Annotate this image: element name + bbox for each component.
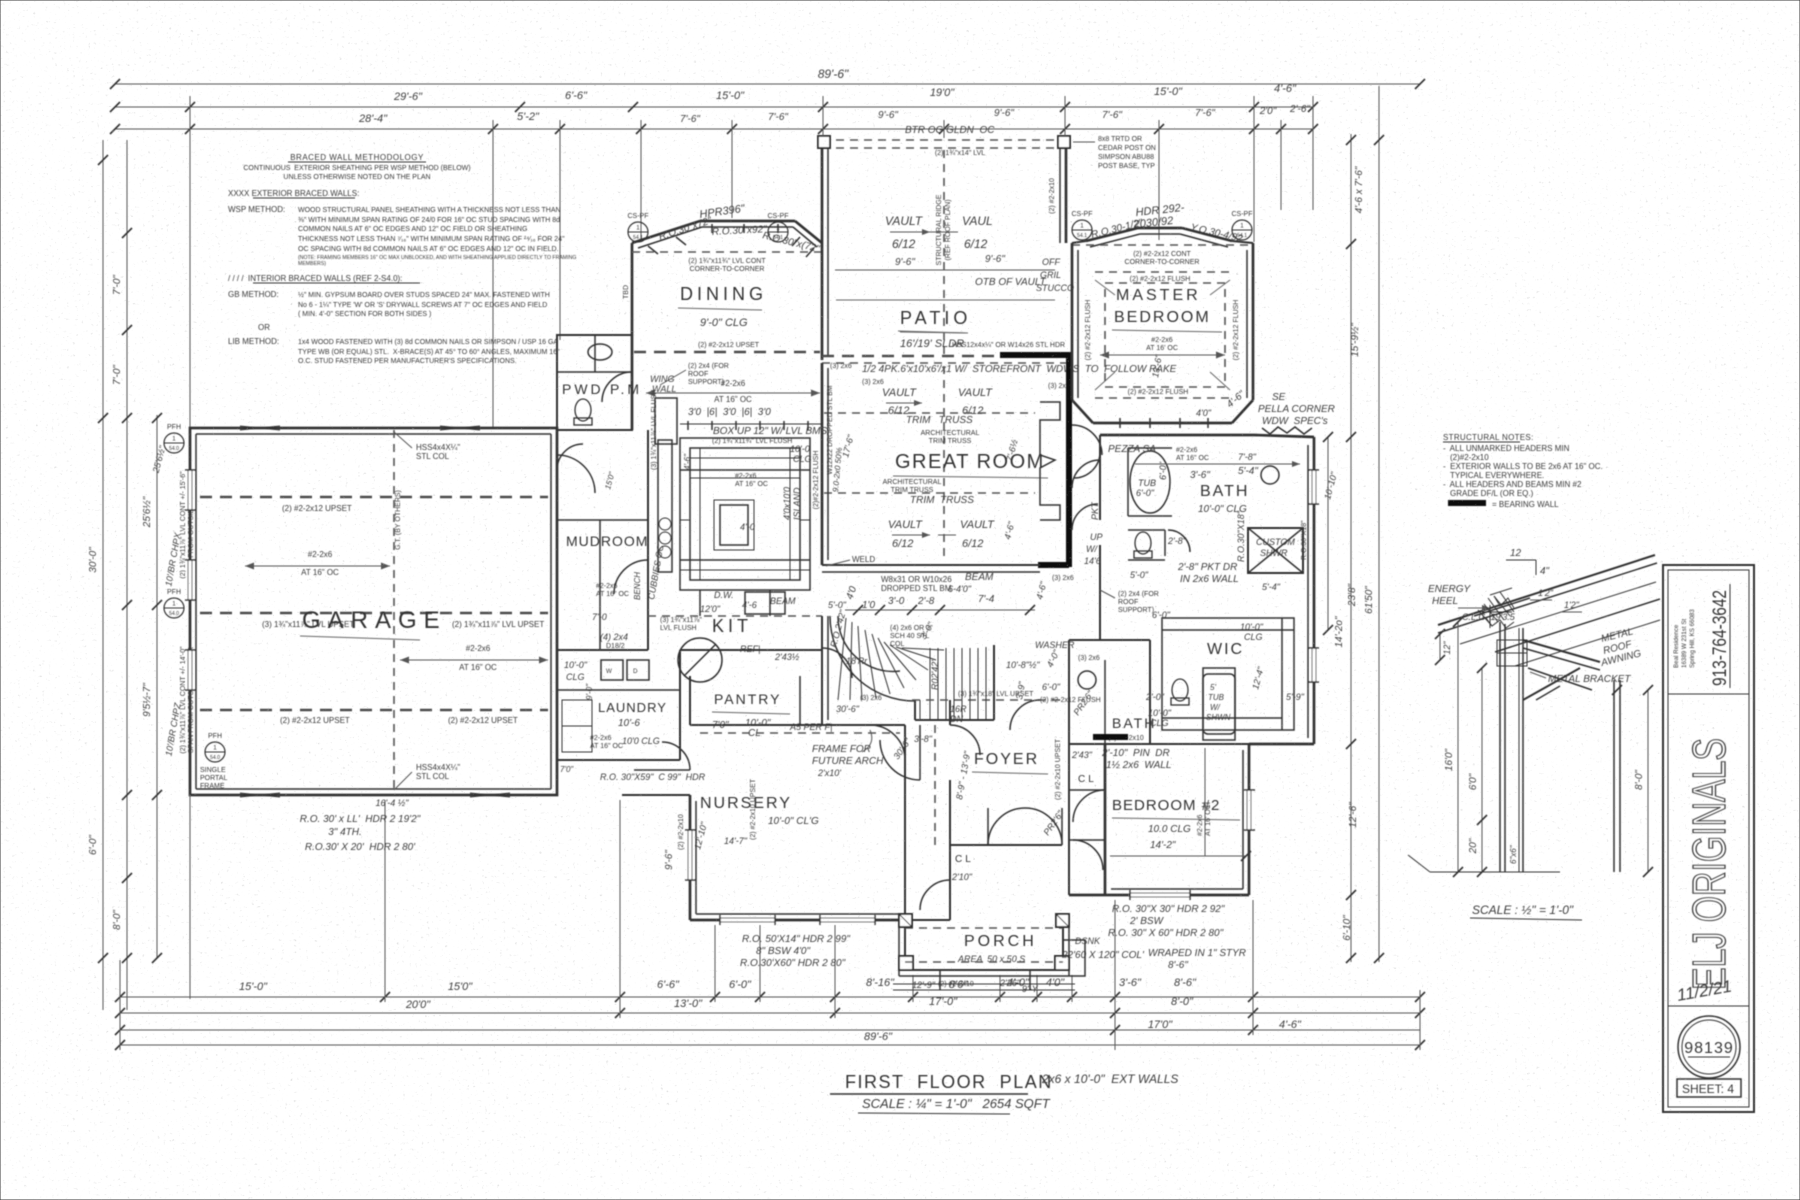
svg-text:CONTINUOUS EXTERIOR SHEATHING: CONTINUOUS EXTERIOR SHEATHING PER WSP ME… bbox=[243, 165, 470, 172]
svg-text:COL: COL bbox=[890, 641, 905, 648]
svg-text:BOX UP 12" W/ LVL BMS: BOX UP 12" W/ LVL BMS bbox=[713, 426, 827, 437]
svg-text:8'-0": 8'-0" bbox=[1634, 770, 1645, 790]
svg-text:/ / / / INTERIOR BRACED WALLS: / / / / INTERIOR BRACED WALLS (REF 2-S4.… bbox=[228, 274, 402, 283]
svg-text:(3) 1¾"x11⅞": (3) 1¾"x11⅞" bbox=[660, 617, 702, 624]
svg-text:1/2 4PK.6'x10'x6'/x1 W/ STORE: 1/2 4PK.6'x10'x6'/x1 W/ STOREFRONT WDWS … bbox=[862, 364, 1177, 375]
text: rotated dims inside great room bbox=[840, 219, 1020, 540]
detail: wall studs verticals bbox=[1497, 622, 1527, 872]
svg-text:10.0 CLG: 10.0 CLG bbox=[1148, 824, 1191, 835]
svg-text:R.O.30"X18": R.O.30"X18" bbox=[1301, 520, 1308, 560]
bottom dim row 1 (segments) bbox=[115, 977, 1425, 1002]
svg-text:½" MIN. GYPSUM BOARD OVER STUD: ½" MIN. GYPSUM BOARD OVER STUDS SPACED 2… bbox=[298, 291, 550, 299]
svg-text:6'-6": 6'-6" bbox=[657, 979, 680, 991]
svg-text:6"x6": 6"x6" bbox=[1509, 844, 1518, 864]
svg-text:BATH: BATH bbox=[1200, 483, 1249, 500]
wall: wic box bbox=[1150, 618, 1294, 744]
svg-text:5'-2": 5'-2" bbox=[517, 111, 540, 123]
wall: garage exterior bbox=[190, 428, 557, 795]
svg-text:W8x31 OR W10x26: W8x31 OR W10x26 bbox=[881, 575, 952, 584]
svg-text:PEZZA SA: PEZZA SA bbox=[1108, 444, 1156, 455]
svg-text:WSP METHOD:: WSP METHOD: bbox=[228, 205, 285, 214]
text: mudroom notes bbox=[564, 470, 642, 682]
svg-text:LIB METHOD:: LIB METHOD: bbox=[228, 337, 279, 346]
svg-text:89'-6": 89'-6" bbox=[818, 67, 849, 81]
svg-text:BENCH: BENCH bbox=[633, 572, 642, 600]
svg-text:10'-0": 10'-0" bbox=[1240, 622, 1264, 632]
svg-text:#2-2x6: #2-2x6 bbox=[1197, 814, 1204, 836]
svg-text:(2) #2-2x10: (2) #2-2x10 bbox=[678, 814, 685, 850]
svg-text:7'-0": 7'-0" bbox=[112, 365, 123, 385]
svg-text:1'2": 1'2" bbox=[1538, 588, 1554, 598]
detail: eave hatch cluster bbox=[1474, 592, 1530, 628]
svg-text:#2-2x6: #2-2x6 bbox=[1176, 447, 1198, 454]
wall: hall between GR and bath bbox=[1069, 435, 1150, 640]
svg-text:UNLESS OTHERWISE NOTED ON THE: UNLESS OTHERWISE NOTED ON THE PLAN bbox=[283, 174, 430, 181]
text: dropped beam below great room bbox=[881, 572, 994, 594]
titleblock: divider top bbox=[1668, 693, 1749, 695]
svg-text:5': 5' bbox=[1210, 683, 1216, 692]
text: foyer right notes bbox=[1041, 688, 1095, 837]
dim arrow: bedroom2 bbox=[1110, 748, 1251, 861]
wall: great room bottom bbox=[822, 565, 1040, 572]
dim arrow: MB 2x6 bbox=[1100, 337, 1225, 378]
svg-text:D.W.: D.W. bbox=[714, 590, 734, 600]
svg-text:GRADE DF/L (OR EQ.): GRADE DF/L (OR EQ.) bbox=[1450, 489, 1534, 498]
svg-text:6'0": 6'0" bbox=[1468, 773, 1479, 790]
svg-text:TRIM TRUSS: TRIM TRUSS bbox=[929, 438, 972, 445]
svg-text:12'-9": 12'-9" bbox=[912, 980, 936, 990]
svg-text:ARCHITECTURAL: ARCHITECTURAL bbox=[921, 430, 980, 437]
svg-text:HEEL: HEEL bbox=[1432, 596, 1458, 607]
wall: laundry bbox=[557, 650, 680, 760]
porch: inner dashes and steps bbox=[893, 940, 1085, 990]
svg-text:6'-0": 6'-0" bbox=[1136, 488, 1155, 498]
handwriting: MB bay bottom bbox=[1196, 389, 1248, 418]
svg-text:12'-4": 12'-4" bbox=[1250, 665, 1266, 691]
note: roof support 2x4 bbox=[1100, 590, 1159, 614]
svg-text:30'-0": 30'-0" bbox=[88, 547, 99, 573]
titleblock: divider bottom bbox=[1668, 1005, 1749, 1007]
svg-text:(2) #2-2x12 UPSET: (2) #2-2x12 UPSET bbox=[448, 716, 518, 725]
svg-text:61'50": 61'50" bbox=[1364, 586, 1375, 614]
svg-text:R.O.30'X60" HDR 2 80": R.O.30'X60" HDR 2 80" bbox=[740, 958, 846, 969]
svg-text:15'-9½": 15'-9½" bbox=[1350, 323, 1361, 357]
svg-text:AT 16" OC: AT 16" OC bbox=[735, 481, 768, 488]
room label: NURSERY bbox=[692, 778, 819, 850]
text: 2'8 pkt dr note bbox=[1130, 562, 1239, 585]
text: stair notes bbox=[836, 620, 967, 724]
symbol: CS-PF dining left bbox=[628, 213, 649, 242]
svg-text:16R: 16R bbox=[950, 704, 967, 714]
svg-text:DROPPED STL BM: DROPPED STL BM bbox=[881, 584, 952, 593]
note: LIB method paragraph bbox=[228, 337, 560, 365]
svg-text:TRIM TRUSS: TRIM TRUSS bbox=[891, 487, 934, 494]
svg-text:ARCHITECTURAL: ARCHITECTURAL bbox=[883, 479, 942, 486]
titleblock: sheet 4 bbox=[1677, 1079, 1741, 1097]
fixture: master tub bbox=[1128, 448, 1172, 516]
svg-text:R.O. 30"X 30" HDR 2 92": R.O. 30"X 30" HDR 2 92" bbox=[1112, 904, 1225, 915]
svg-text:R.O. 30" X 60" HDR 2 80": R.O. 30" X 60" HDR 2 80" bbox=[1108, 928, 1224, 939]
svg-text:2'43": 2'43" bbox=[1071, 750, 1093, 760]
svg-text:CUSTOM: CUSTOM bbox=[1256, 537, 1295, 547]
handwriting: MB hip notes bbox=[1090, 202, 1244, 245]
fixture: pwd toilet bbox=[574, 399, 592, 425]
svg-text:#2-2x6: #2-2x6 bbox=[466, 644, 491, 653]
svg-text:AT 16" OC: AT 16" OC bbox=[1176, 455, 1209, 462]
svg-text:CL: CL bbox=[1078, 774, 1097, 785]
svg-text:7'-0": 7'-0" bbox=[112, 275, 123, 295]
stairs: curved fan bbox=[830, 616, 994, 720]
svg-text:3'-6": 3'-6" bbox=[1190, 470, 1210, 481]
svg-text:2'-0": 2'-0" bbox=[1145, 692, 1165, 702]
hall: extra arcs near foyer right bbox=[935, 700, 1040, 845]
svg-text:(2) #2-2x12 CONT: (2) #2-2x12 CONT bbox=[1133, 251, 1191, 258]
svg-text:(2) 1¾"x11¾" LVL FLUSH: (2) 1¾"x11¾" LVL FLUSH bbox=[712, 438, 792, 445]
svg-text:3'-8": 3'-8" bbox=[914, 734, 933, 744]
svg-text:4'-0: 4'-0 bbox=[740, 522, 755, 532]
svg-text:SE: SE bbox=[1272, 392, 1286, 403]
symbol: CS-PF MB right bbox=[1232, 211, 1253, 240]
text: laundry notes below bbox=[560, 735, 706, 782]
svg-text:9'-6": 9'-6" bbox=[994, 108, 1014, 119]
symbol: PFH upper bbox=[164, 424, 184, 453]
svg-text:1x4 WOOD FASTENED WITH (3) 8d: 1x4 WOOD FASTENED WITH (3) 8d COMMON NAI… bbox=[298, 339, 558, 346]
svg-text:A5 PER F|: A5 PER F| bbox=[789, 722, 832, 732]
detail: right post bbox=[1612, 680, 1622, 872]
svg-text:2'43½: 2'43½ bbox=[774, 652, 800, 662]
svg-text:(2) #2-2x12 FLUSH: (2) #2-2x12 FLUSH bbox=[1085, 300, 1092, 361]
svg-text:OFF: OFF bbox=[1042, 257, 1060, 267]
wall: mudroom bbox=[557, 430, 648, 650]
window: MB bay bottom window marks bbox=[1120, 418, 1208, 428]
svg-text:913-764-3642: 913-764-3642 bbox=[1710, 590, 1731, 686]
note: GB method paragraph bbox=[228, 290, 550, 332]
svg-text:Spring Hill, KS 66083: Spring Hill, KS 66083 bbox=[1689, 609, 1696, 668]
svg-text:13'-0": 13'-0" bbox=[674, 998, 703, 1010]
svg-text:14'-2": 14'-2" bbox=[1150, 840, 1176, 851]
door arc: nursery door bbox=[870, 725, 905, 760]
svg-text:#2-2x6: #2-2x6 bbox=[1151, 337, 1173, 344]
svg-text:7'-0: 7'-0 bbox=[592, 612, 607, 622]
note: 8x8 cedar post bbox=[1073, 136, 1156, 170]
header: dining/kitchen dashed bbox=[634, 342, 820, 352]
svg-text:8x8 TRTD OR: 8x8 TRTD OR bbox=[1098, 136, 1142, 143]
svg-text:AT 16" OC: AT 16" OC bbox=[301, 568, 339, 577]
svg-text:STL COL: STL COL bbox=[416, 772, 450, 781]
room label: PANTRY bbox=[712, 691, 832, 739]
svg-text:GB METHOD:: GB METHOD: bbox=[228, 290, 279, 299]
svg-text:(3) 2x6: (3) 2x6 bbox=[1052, 575, 1074, 582]
svg-text:AT 16" OC: AT 16" OC bbox=[714, 395, 752, 404]
svg-text:18'Rr: 18'Rr bbox=[846, 656, 868, 666]
svg-text:5'-4": 5'-4" bbox=[1238, 466, 1258, 477]
svg-text:FIRST FLOOR PLAN: FIRST FLOOR PLAN bbox=[845, 1072, 1053, 1092]
svg-text:14'-2o": 14'-2o" bbox=[1334, 616, 1345, 647]
svg-text:1'2": 1'2" bbox=[1564, 600, 1580, 610]
svg-text:12'0": 12'0" bbox=[700, 604, 721, 614]
svg-text:10'-0" CL'G: 10'-0" CL'G bbox=[768, 816, 819, 827]
svg-text:25'6½": 25'6½" bbox=[150, 444, 167, 475]
wall: closets between nursery and foyer bbox=[880, 725, 985, 920]
extra handwritten right wing bbox=[1084, 432, 1339, 635]
svg-text:R.O.30"x72": R.O.30"x72" bbox=[658, 215, 714, 243]
svg-text:VAULT: VAULT bbox=[960, 519, 995, 531]
svg-text:W/: W/ bbox=[1210, 703, 1221, 712]
titleblock: job number circle bbox=[1678, 1016, 1740, 1078]
text: (3) 2x6 notes bbox=[830, 363, 1074, 582]
svg-text:7'-8": 7'-8" bbox=[1238, 452, 1257, 462]
svg-text:1'0: 1'0 bbox=[862, 600, 875, 611]
wall: hall/closet right of foyer bbox=[1069, 744, 1105, 895]
svg-text:R.O.30' X 20' HDR 2 80': R.O.30' X 20' HDR 2 80' bbox=[305, 842, 416, 853]
cabinet: kitchen counters bbox=[658, 438, 810, 590]
svg-text:TUB: TUB bbox=[1138, 478, 1156, 488]
svg-text:6'-0": 6'-0" bbox=[1152, 610, 1171, 620]
svg-text:WOOD STRUCTURAL PANEL SHEATHIN: WOOD STRUCTURAL PANEL SHEATHING WITH A T… bbox=[298, 207, 561, 214]
svg-text:7'-4: 7'-4 bbox=[978, 594, 995, 605]
svg-text:7'-6": 7'-6" bbox=[680, 114, 700, 125]
svg-text:(2) #2-2x10 UPSET: (2) #2-2x10 UPSET bbox=[750, 778, 757, 840]
svg-text:POST BASE, TYP: POST BASE, TYP bbox=[1098, 163, 1155, 170]
svg-text:R.O.30"x92": R.O.30"x92" bbox=[712, 224, 768, 238]
svg-text:#2-2x6: #2-2x6 bbox=[721, 379, 746, 388]
svg-text:12": 12" bbox=[1442, 641, 1452, 655]
fixture: custom shower bbox=[1236, 510, 1303, 592]
svg-text:SHEET: 4: SHEET: 4 bbox=[1682, 1082, 1734, 1096]
girder truss dashed vertical bbox=[394, 430, 402, 792]
svg-text:R.O. 30"X59" C 99" HDR: R.O. 30"X59" C 99" HDR bbox=[600, 772, 706, 782]
svg-text:4'0": 4'0" bbox=[1196, 408, 1212, 418]
note: exterior braced walls bbox=[228, 189, 359, 198]
svg-text:STRUCTURAL RIDGE: STRUCTURAL RIDGE bbox=[936, 194, 943, 265]
detail: metal roof awning note bbox=[1530, 626, 1643, 685]
wall: patio right / MB left upper bbox=[1049, 148, 1066, 243]
header: MB corner-to-corner bbox=[1072, 245, 1253, 266]
svg-text:AT 16' OC: AT 16' OC bbox=[1205, 804, 1212, 836]
svg-text:2'10": 2'10" bbox=[951, 872, 973, 882]
svg-text:BEDROOM: BEDROOM bbox=[1114, 309, 1211, 326]
note: HSS col top bbox=[394, 432, 460, 461]
svg-text:6-4'0": 6-4'0" bbox=[948, 584, 972, 594]
svg-text:10'-10": 10'-10" bbox=[1322, 470, 1339, 500]
wall: bedroom2 box bbox=[1069, 744, 1249, 895]
wall: bearing wall thick C bbox=[1000, 352, 1069, 567]
svg-text:- EXTERIOR WALLS TO BE 2x6 AT: - EXTERIOR WALLS TO BE 2x6 AT 16" OC. bbox=[1443, 462, 1603, 471]
detail: dims left bbox=[1435, 588, 1582, 877]
svg-text:(2) #2-2x10 UPSET: (2) #2-2x10 UPSET bbox=[1055, 738, 1062, 800]
svg-text:( MIN. 4'-0" SECTION FOR BOTH: ( MIN. 4'-0" SECTION FOR BOTH SIDES ) bbox=[298, 311, 431, 318]
svg-text:BEAM: BEAM bbox=[770, 596, 796, 606]
svg-text:(3) 1¾"x11⅞" LVL FLUSH: (3) 1¾"x11⅞" LVL FLUSH bbox=[651, 390, 658, 470]
dashed: trim truss lines bbox=[824, 366, 1035, 560]
symbol: CS-PF dining right bbox=[768, 213, 789, 242]
fixture: cooktop circles bbox=[659, 518, 671, 558]
svg-text:5'-0": 5'-0" bbox=[828, 600, 847, 610]
titleblock: phone bbox=[1710, 584, 1731, 688]
room label: DINING bbox=[678, 284, 767, 329]
svg-text:P.M: P.M bbox=[610, 381, 642, 397]
svg-text:6/12: 6/12 bbox=[964, 237, 988, 251]
svg-text:AT 16' OC: AT 16' OC bbox=[1146, 345, 1178, 352]
svg-text:8'-9" - 13'-9": 8'-9" - 13'-9" bbox=[954, 750, 972, 801]
svg-text:(NOTE: FRAMING MEMBERS 16" OC: (NOTE: FRAMING MEMBERS 16" OC MAX UNBLOC… bbox=[298, 255, 576, 261]
svg-text:STL COL: STL COL bbox=[416, 452, 450, 461]
svg-text:ROOF: ROOF bbox=[688, 371, 708, 378]
text: frame for future arch bbox=[812, 730, 884, 778]
svg-text:LAUNDRY: LAUNDRY bbox=[598, 700, 667, 715]
dim row: overall 89'-6" top bbox=[110, 67, 1425, 89]
svg-text:W/: W/ bbox=[1086, 544, 1098, 554]
svg-text:14'-7": 14'-7" bbox=[724, 836, 748, 846]
header: MB flush dashed inner bbox=[1085, 272, 1240, 398]
svg-text:3'-6": 3'-6" bbox=[1119, 977, 1142, 989]
svg-text:AT 16" OC: AT 16" OC bbox=[596, 591, 629, 598]
note: HSS col bottom bbox=[394, 763, 460, 790]
svg-text:(3) 2x6: (3) 2x6 bbox=[860, 695, 882, 702]
svg-text:Y.O.30-4/92: Y.O.30-4/92 bbox=[1189, 222, 1244, 245]
titleblock: outer box bbox=[1663, 565, 1754, 1112]
room label: BATH (2) bbox=[1078, 655, 1172, 731]
svg-text:1½ 2x6 WALL: 1½ 2x6 WALL bbox=[1106, 760, 1171, 771]
header: dining corner-to-corner dashed bbox=[632, 252, 822, 273]
svg-text:PWD: PWD bbox=[562, 381, 604, 397]
text: wing wall bbox=[650, 374, 677, 444]
svg-text:R.O.30-1/2": R.O.30-1/2" bbox=[1090, 217, 1144, 240]
svg-text:THICKNESS NOT LESS THAN ⁷⁄₁₆": THICKNESS NOT LESS THAN ⁷⁄₁₆" WITH MINIM… bbox=[298, 236, 565, 243]
svg-text:9'-6": 9'-6" bbox=[895, 257, 915, 268]
svg-text:SIMPSON ABU88: SIMPSON ABU88 bbox=[1098, 154, 1154, 161]
note: WSP method paragraph bbox=[228, 205, 576, 267]
svg-text:MUDROOM: MUDROOM bbox=[566, 533, 648, 549]
text: patio mid notes bbox=[835, 254, 1074, 293]
window: bedroom2 right & bottom bbox=[1130, 790, 1255, 900]
svg-text:OR: OR bbox=[258, 323, 270, 332]
dashed: nursery top header bbox=[700, 732, 900, 734]
room label: FOYER bbox=[954, 750, 1048, 801]
svg-text:4'-6": 4'-6" bbox=[1274, 83, 1297, 95]
mb hall door arcs bbox=[1072, 460, 1100, 530]
svg-text:(3) 2x6: (3) 2x6 bbox=[862, 379, 884, 386]
door arc: front double door bbox=[985, 808, 1062, 845]
door arc: wc door bbox=[1168, 530, 1190, 552]
note: roof support post bbox=[660, 363, 729, 386]
left dim chain verticals bbox=[88, 140, 162, 1010]
svg-text:METAL BRACKET: METAL BRACKET bbox=[1548, 674, 1631, 685]
svg-text:5'-4": 5'-4" bbox=[1262, 582, 1281, 592]
svg-text:CLG: CLG bbox=[793, 454, 812, 464]
wall: kitchen/pantry bottom bbox=[648, 616, 822, 650]
svg-text:= BEARING WALL: = BEARING WALL bbox=[1492, 500, 1559, 509]
svg-text:3'0 |6| 3'0 |6| 3'0: 3'0 |6| 3'0 |6| 3'0 bbox=[688, 407, 771, 418]
svg-text:AT 16" OC: AT 16" OC bbox=[459, 663, 497, 672]
svg-text:COMMON NAILS AT 6" OC EDGES AN: COMMON NAILS AT 6" OC EDGES AND 12" OC F… bbox=[298, 226, 527, 233]
wall: nursery box bbox=[622, 725, 905, 920]
header: garage dashed upset 3 bbox=[200, 710, 548, 725]
svg-text:DINING: DINING bbox=[680, 284, 767, 304]
svg-text:15'-0": 15'-0" bbox=[239, 981, 268, 993]
svg-text:20": 20" bbox=[1468, 838, 1479, 854]
misc: door between laundry/nursery area bbox=[634, 742, 690, 770]
svg-text:(2) #2-2x10: (2) #2-2x10 bbox=[1049, 178, 1056, 214]
detail: slope marker 12/4 bbox=[1506, 548, 1550, 577]
note: SE pella corner window bbox=[1258, 392, 1335, 434]
svg-text:UP: UP bbox=[1090, 532, 1103, 542]
svg-text:17'-0": 17'-0" bbox=[929, 996, 958, 1008]
svg-text:5'-9": 5'-9" bbox=[1286, 692, 1305, 702]
svg-text:#2-2x6: #2-2x6 bbox=[308, 550, 333, 559]
svg-text:8'-6": 8'-6" bbox=[1174, 977, 1197, 989]
window: bath right wall windows bbox=[1308, 470, 1319, 682]
svg-text:R.O.30"X18": R.O.30"X18" bbox=[1236, 510, 1246, 562]
svg-text:(2) 2x4 (FOR: (2) 2x4 (FOR bbox=[1118, 591, 1159, 598]
svg-text:4'-6": 4'-6" bbox=[683, 453, 692, 470]
bottom dim row 3 overall bbox=[115, 1025, 1425, 1050]
window: nursery bottom windows bbox=[720, 915, 875, 925]
svg-text:WIC: WIC bbox=[1207, 641, 1244, 658]
svg-text:4'-6": 4'-6" bbox=[1279, 1019, 1302, 1031]
svg-text:30'-6": 30'-6" bbox=[836, 704, 860, 714]
fixture: bath2 vanity + wc + tub bbox=[1078, 668, 1235, 740]
svg-text:G.T. (BY OTHERS): G.T. (BY OTHERS) bbox=[395, 490, 402, 550]
svg-text:WDW SPEC's: WDW SPEC's bbox=[1262, 416, 1328, 427]
svg-text:10'-0": 10'-0" bbox=[564, 660, 588, 670]
note: braced wall methodology heading bbox=[243, 153, 470, 181]
svg-text:10'-8"½": 10'-8"½" bbox=[1006, 660, 1040, 670]
svg-text:- ALL UNMARKED HEADERS MIN: - ALL UNMARKED HEADERS MIN bbox=[1443, 444, 1570, 453]
svg-text:14'6: 14'6 bbox=[1084, 556, 1101, 566]
text: structural ridge rotated bbox=[936, 150, 952, 356]
svg-text:19'0": 19'0" bbox=[930, 87, 955, 99]
svg-text:ISLAND: ISLAND bbox=[792, 487, 802, 520]
svg-text:9'-6": 9'-6" bbox=[878, 110, 898, 121]
wall: MB box bbox=[1072, 243, 1253, 423]
svg-text:6'-0": 6'-0" bbox=[1042, 682, 1061, 692]
svg-text:9'-6": 9'-6" bbox=[664, 850, 675, 870]
svg-text:16'-4 ½": 16'-4 ½" bbox=[376, 798, 410, 808]
window: dining bay three windows bbox=[648, 224, 814, 257]
svg-text:9'-0": 9'-0" bbox=[585, 683, 594, 700]
svg-text:89'-6": 89'-6" bbox=[864, 1031, 893, 1043]
extra clutter left of KIT bbox=[600, 543, 666, 650]
svg-text:TYPE WB (OR EQUAL) STL. X-BRA: TYPE WB (OR EQUAL) STL. X-BRACE(S) AT 45… bbox=[298, 348, 560, 356]
wall: foyer bbox=[912, 691, 1065, 725]
svg-text:STUCCO: STUCCO bbox=[1036, 283, 1074, 293]
svg-text:2'-8" PKT DR: 2'-8" PKT DR bbox=[1177, 562, 1237, 573]
svg-text:R.O. 30' x LL' HDR 2 19'2": R.O. 30' x LL' HDR 2 19'2" bbox=[300, 814, 421, 825]
svg-text:(2) 1¾"x14" LVL: (2) 1¾"x14" LVL bbox=[935, 150, 985, 157]
note: interior braced walls bbox=[228, 274, 420, 283]
svg-text:PKT: PKT bbox=[1090, 501, 1100, 520]
svg-text:OC SPACING WITH 8d COMMON NAIL: OC SPACING WITH 8d COMMON NAILS AT 6" OC… bbox=[298, 246, 559, 253]
wall: pwd/pm block bbox=[557, 335, 632, 430]
svg-text:(2)#2-2x12 FLUSH: (2)#2-2x12 FLUSH bbox=[813, 451, 820, 510]
svg-text:6'-0": 6'-0" bbox=[1158, 461, 1168, 480]
porch top posts bbox=[899, 914, 1069, 927]
svg-text:(2) 1¾"x11⅞" LVL UPSET: (2) 1¾"x11⅞" LVL UPSET bbox=[452, 620, 544, 629]
svg-text:TUB: TUB bbox=[1208, 693, 1225, 702]
svg-text:29'-6": 29'-6" bbox=[393, 91, 423, 103]
svg-text:4'-6: 4'-6 bbox=[742, 600, 757, 610]
detail: energy heel bbox=[1428, 584, 1516, 628]
svg-text:4'-6": 4'-6" bbox=[1034, 580, 1049, 601]
svg-text:7'-6": 7'-6" bbox=[768, 112, 788, 123]
svg-text:23'8": 23'8" bbox=[1347, 583, 1358, 607]
svg-text:CL: CL bbox=[955, 854, 974, 865]
svg-text:16'0": 16'0" bbox=[1444, 748, 1455, 771]
note: span from outside corner (left rotated) bbox=[150, 444, 195, 757]
svg-text:SCALE : ½" = 1'-0": SCALE : ½" = 1'-0" bbox=[1472, 903, 1574, 917]
text: trim truss labels bbox=[906, 415, 979, 445]
